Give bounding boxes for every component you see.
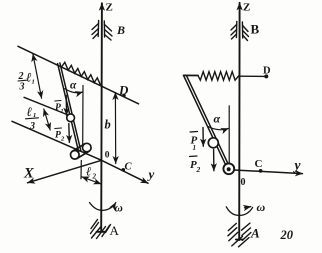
upper hinge circle right: [208, 138, 218, 148]
svg-text:A: A: [250, 226, 260, 241]
svg-text:ℓ: ℓ: [86, 165, 91, 179]
slider cylinder tangent lines: [77, 151, 89, 158]
svg-text:ω: ω: [115, 203, 123, 215]
svg-text:2: 2: [196, 165, 201, 174]
point C dot right: [259, 169, 263, 173]
labels right: [190, 2, 302, 243]
svg-text:0: 0: [241, 177, 246, 188]
rod (double line from spring top to slider): [58, 64, 79, 152]
middle slanted guide line through hinge: [24, 97, 67, 114]
svg-text:3: 3: [29, 121, 35, 132]
svg-text:D: D: [263, 66, 271, 77]
svg-text:C: C: [125, 162, 133, 173]
extension line below slider: [80, 161, 82, 179]
spring right (horizontal zigzag): [198, 72, 239, 81]
dimension b vertical double arrow: [114, 93, 116, 164]
svg-text:ℓ: ℓ: [27, 104, 33, 119]
svg-text:C: C: [255, 158, 263, 170]
support A hatching: [91, 220, 111, 239]
svg-text:B: B: [251, 22, 260, 37]
omega rotation arc: [90, 203, 116, 211]
point D dot: [122, 94, 125, 97]
svg-text:2: 2: [60, 136, 65, 143]
lower hinge circle right (at origin): [223, 163, 234, 174]
dimension l2 double arrow: [82, 177, 101, 184]
force P2 arrow: [68, 124, 71, 143]
svg-text:0: 0: [105, 151, 110, 161]
dimension 2/3 l1 (double arrow along rod): [33, 54, 42, 98]
spring (zigzag on slanted line): [62, 62, 101, 85]
force P2 arrow right: [213, 150, 215, 171]
support B right hatching: [231, 22, 249, 41]
svg-text:1: 1: [193, 144, 197, 152]
svg-text:20: 20: [280, 228, 294, 242]
omega arc right: [226, 207, 252, 216]
svg-text:2: 2: [92, 173, 97, 181]
support A right hatching: [228, 223, 251, 247]
point C dot: [122, 168, 126, 172]
vertical reference line for angle alpha: [82, 86, 84, 147]
force P1 arrow: [65, 95, 67, 115]
pivot dot in lower hinge circle: [227, 167, 231, 171]
svg-text:y: y: [147, 167, 155, 182]
svg-text:1: 1: [32, 79, 35, 86]
svg-text:y: y: [293, 158, 302, 173]
svg-text:3: 3: [19, 82, 25, 93]
labels left: [18, 2, 155, 239]
svg-text:B: B: [116, 23, 125, 37]
svg-text:α: α: [70, 80, 77, 92]
line from axis to D right: [240, 75, 266, 77]
svg-text:D: D: [118, 83, 129, 98]
svg-text:α: α: [214, 112, 221, 126]
svg-text:ω: ω: [257, 200, 266, 214]
y axis right: [234, 170, 302, 174]
force P1 arrow right: [202, 128, 204, 147]
y axis (through slider and origin O): [12, 121, 148, 183]
svg-text:b: b: [105, 118, 111, 132]
svg-text:Z: Z: [106, 2, 113, 14]
omega arrow right: [245, 207, 251, 208]
support B left hatching: [92, 21, 112, 41]
dimension l1/3 (double arrow along rod): [44, 109, 50, 130]
point D dot right: [264, 74, 268, 78]
rod double line right: [184, 76, 228, 169]
slider cylinder left circle: [71, 151, 80, 160]
z axis right: [238, 3, 240, 240]
svg-text:X: X: [23, 166, 34, 182]
slanted line through D (spring guide line): [18, 46, 139, 104]
z axis left (A to B vertical shaft): [100, 3, 103, 232]
rod top cap: [184, 74, 199, 76]
hinge circle on rod: [67, 114, 75, 122]
svg-text:A: A: [110, 223, 120, 238]
alpha arc right: [208, 126, 229, 129]
svg-text:1: 1: [61, 109, 64, 115]
alpha angle arc with arrow: [65, 89, 83, 93]
vertical reference line for alpha right: [228, 106, 230, 163]
svg-text:Z: Z: [243, 2, 250, 14]
slider cylinder right circle: [83, 143, 92, 152]
x axis: [28, 160, 102, 183]
